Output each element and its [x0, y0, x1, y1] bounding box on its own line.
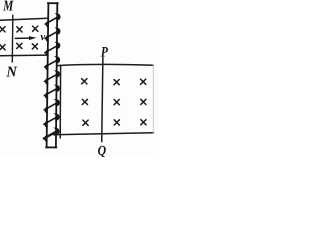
svg-text:Q: Q [98, 144, 107, 157]
svg-text:v: v [40, 31, 45, 43]
svg-text:N: N [5, 65, 18, 81]
svg-text:P: P [101, 44, 108, 60]
svg-text:M: M [2, 0, 13, 15]
